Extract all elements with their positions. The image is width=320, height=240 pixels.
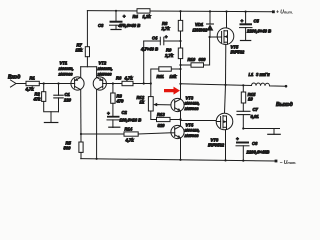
ground below C5 xyxy=(241,40,251,42)
node R8 on rail xyxy=(179,10,181,12)
svg-text:15k: 15k xyxy=(76,48,84,53)
wire VT2 emitter lead xyxy=(96,67,98,78)
wire C4 left down to node line xyxy=(143,41,145,84)
diode VD1 xyxy=(193,10,214,37)
resistor R15 xyxy=(241,85,256,103)
wire emitter tee bar xyxy=(81,66,97,68)
capacitor C4 xyxy=(140,35,181,52)
node terminal +Upit xyxy=(272,10,275,13)
wire R9 down to VT3 collector xyxy=(180,59,182,99)
wire R12 bottom to R13 xyxy=(151,111,157,120)
svg-text:3 мкГн: 3 мкГн xyxy=(256,72,270,77)
wire VT4 emitter to bottom rail xyxy=(180,138,182,160)
wire R15 to C7 xyxy=(242,103,244,111)
node speaker return xyxy=(242,127,244,129)
capacitor C1 xyxy=(54,84,72,112)
wire VT3 emitter to node xyxy=(180,111,182,126)
wire R6 right to corner node xyxy=(133,83,151,85)
svg-text:С6: С6 xyxy=(252,141,258,146)
node R3/R6 base tap xyxy=(112,82,114,84)
svg-text:С7: С7 xyxy=(253,107,259,112)
wire R2 top lead xyxy=(43,84,45,92)
node VT5/VT6 source junction xyxy=(224,84,226,86)
svg-text:10: 10 xyxy=(248,96,253,101)
node C4 tap xyxy=(179,40,181,42)
svg-text:R11: R11 xyxy=(157,74,165,79)
wire R3 to C2 xyxy=(112,103,114,116)
transistor VT4 (2N4410/2N5088 npn) xyxy=(171,123,200,139)
wire VT2 collector down to bottom rail xyxy=(96,90,98,159)
ground below C3 xyxy=(111,29,121,31)
resistor R13 xyxy=(157,117,171,121)
wire R14 right to VT4 base xyxy=(138,133,171,134)
node output terminal xyxy=(285,85,288,88)
svg-text:4,7k: 4,7k xyxy=(125,138,135,143)
svg-text:680: 680 xyxy=(199,57,207,62)
svg-text:560: 560 xyxy=(64,146,72,151)
node VT6 drain on rail xyxy=(224,159,226,161)
svg-text:10k: 10k xyxy=(170,74,178,79)
wire R11 left lead down to node line xyxy=(151,69,159,84)
svg-text:Выход: Выход xyxy=(276,102,293,108)
wire R13 right to VT3/VT4 node xyxy=(170,119,181,121)
resistor R4 on rail xyxy=(137,9,150,13)
wire R3 top lead xyxy=(112,84,114,94)
node output line to VAS column xyxy=(179,83,181,85)
node R14 tap on VT1 collector xyxy=(80,133,82,135)
resistor R3 xyxy=(111,93,115,103)
node terminal -Upit xyxy=(275,160,278,163)
transistor VT2 (2N4356/2N5086 pnp) xyxy=(93,61,112,91)
wire VT1 emitter lead xyxy=(80,67,82,78)
svg-text:R10: R10 xyxy=(188,57,196,62)
resistor R6 xyxy=(122,81,133,85)
wire VT5 source to output line xyxy=(225,44,227,85)
resistor R7 xyxy=(85,47,89,57)
wire output line xyxy=(181,83,287,86)
svg-text:+: + xyxy=(241,19,244,24)
wire bottom supply rail xyxy=(81,159,276,161)
node C1 tap xyxy=(57,82,59,84)
transistor VT1 (2N4356/2N5086 pnp) xyxy=(58,61,85,91)
svg-text:0,01: 0,01 xyxy=(251,114,260,119)
wire rail to R8 xyxy=(180,11,182,20)
wire R5 to bottom rail xyxy=(80,152,82,158)
wire VT5 drain xyxy=(226,12,228,29)
trimmer R12 xyxy=(137,95,159,111)
svg-text:VD1: VD1 xyxy=(195,22,204,27)
svg-text:С4: С4 xyxy=(152,36,158,41)
wire VT2 base to R3 node xyxy=(106,83,122,85)
svg-text:1,2k: 1,2k xyxy=(143,14,152,19)
node R15 tap xyxy=(242,84,244,86)
wire VT6 source up xyxy=(225,85,226,113)
svg-text:470,0×40 В: 470,0×40 В xyxy=(118,23,141,28)
wire VT1 collector down xyxy=(80,90,82,142)
capacitor C7 xyxy=(237,107,259,129)
red arrow marker xyxy=(164,87,180,95)
node R11 tap xyxy=(179,68,181,70)
wire R2 bottom lead xyxy=(44,101,59,111)
svg-text:R9: R9 xyxy=(166,48,172,53)
svg-text:2N4356,: 2N4356, xyxy=(97,66,113,71)
svg-text:Вход: Вход xyxy=(8,75,20,81)
wire R8 to R9 xyxy=(180,31,182,48)
svg-text:R14: R14 xyxy=(125,127,133,132)
svg-text:47k: 47k xyxy=(33,97,42,102)
svg-text:С3: С3 xyxy=(98,23,104,28)
ground output xyxy=(268,129,280,135)
svg-text:4,7×40 В: 4,7×40 В xyxy=(140,47,158,52)
svg-text:2N5086: 2N5086 xyxy=(97,72,113,77)
transistor VT5 (IRF532 mosfet) xyxy=(217,28,245,55)
svg-text:2N4410,: 2N4410, xyxy=(184,128,200,133)
svg-text:2200,0×40В: 2200,0×40В xyxy=(246,150,270,155)
node C5 on rail xyxy=(245,11,247,13)
node VT4 emitter on rail xyxy=(179,159,181,161)
capacitor C6 xyxy=(236,137,269,161)
svg-text:470: 470 xyxy=(116,99,125,104)
svg-text:R6: R6 xyxy=(116,76,122,81)
node R11/R12 column xyxy=(150,82,152,84)
svg-text:2N5088: 2N5088 xyxy=(184,106,200,111)
svg-text:100,0×16 В: 100,0×16 В xyxy=(120,117,142,122)
resistor R14 xyxy=(124,132,138,136)
resistor R11 xyxy=(159,67,172,71)
svg-text:R13: R13 xyxy=(157,112,165,117)
capacitor C3 xyxy=(98,11,140,30)
wire R1 to VT1 base xyxy=(39,83,71,85)
svg-text:4,7k: 4,7k xyxy=(25,87,35,92)
node VT5 gate tap xyxy=(209,36,211,38)
svg-text:VT2: VT2 xyxy=(99,61,107,66)
svg-text:2,7k: 2,7k xyxy=(161,26,171,31)
svg-text:R4: R4 xyxy=(133,14,139,19)
node VT3/VT4/R13/gate junction xyxy=(179,118,181,120)
resistor R10 xyxy=(191,63,204,67)
wire R12 top lead xyxy=(150,84,152,97)
wire R7 branch from rail xyxy=(86,11,88,47)
svg-text:IRF532: IRF532 xyxy=(231,50,245,55)
wire R12 wiper to VT3 base xyxy=(158,104,171,106)
svg-text:L1: L1 xyxy=(249,72,255,77)
wire top supply rail xyxy=(87,11,272,12)
node VT2 collector on rail xyxy=(96,158,98,160)
wire R7 to emitter tee xyxy=(86,57,88,67)
svg-text:+: + xyxy=(165,35,168,40)
wire input to R1 xyxy=(16,83,26,85)
svg-text:2N4356,: 2N4356, xyxy=(58,66,74,71)
resistor R1 xyxy=(26,81,39,85)
capacitor C2 xyxy=(107,110,141,128)
resistor R8 xyxy=(178,20,182,31)
wire R11 right lead xyxy=(171,68,180,70)
input connector xyxy=(11,80,17,87)
transistor VT3 (2N4410/2N5088 npn) xyxy=(171,96,200,112)
svg-text:VT1: VT1 xyxy=(60,61,68,66)
wire R10 left lead xyxy=(181,64,192,66)
node VT5 drain on rail xyxy=(225,10,227,12)
svg-text:2N5086: 2N5086 xyxy=(58,72,74,77)
svg-text:1N4002: 1N4002 xyxy=(193,28,208,33)
wire speaker return line xyxy=(243,128,279,130)
svg-text:+: + xyxy=(236,137,239,142)
resistor R2 xyxy=(42,92,46,102)
node C6 on rail xyxy=(242,160,244,162)
node C4 column joins base line xyxy=(143,82,145,84)
svg-text:2,7k: 2,7k xyxy=(164,53,174,58)
resistor R9 xyxy=(178,48,182,59)
svg-text:820: 820 xyxy=(158,123,166,128)
inductor L1 label xyxy=(249,72,271,77)
ground below C2 xyxy=(109,126,120,128)
svg-text:2N4410,: 2N4410, xyxy=(184,101,200,106)
svg-text:2N5088: 2N5088 xyxy=(184,133,200,138)
svg-text:IRF9532: IRF9532 xyxy=(208,143,225,148)
node R2 tap xyxy=(43,82,45,84)
node C3 on rail xyxy=(115,10,117,12)
wire R10 right lead up to VD1 column xyxy=(204,37,210,65)
node R10 tap xyxy=(179,64,181,66)
svg-text:+: + xyxy=(123,14,126,19)
resistor R5 xyxy=(79,142,83,152)
wire R14 left lead xyxy=(81,133,124,135)
wire VT5 gate lead xyxy=(210,36,218,38)
wire VT6 drain to bottom rail xyxy=(225,130,227,161)
svg-text:+: + xyxy=(107,111,110,116)
svg-text:С5: С5 xyxy=(254,19,260,24)
wire VT6 gate line xyxy=(181,120,217,122)
svg-text:2200,0×40 В: 2200,0×40 В xyxy=(246,29,271,34)
capacitor C5 xyxy=(240,12,272,41)
transistor VT6 (IRF9532 mosfet) xyxy=(208,113,233,147)
svg-text:С2: С2 xyxy=(122,110,128,115)
ground input network xyxy=(44,112,57,123)
svg-text:R1: R1 xyxy=(30,76,36,81)
svg-text:С1: С1 xyxy=(65,92,71,97)
svg-text:1k: 1k xyxy=(140,100,145,105)
svg-text:4,7k: 4,7k xyxy=(124,76,134,81)
svg-text:220: 220 xyxy=(63,98,72,103)
